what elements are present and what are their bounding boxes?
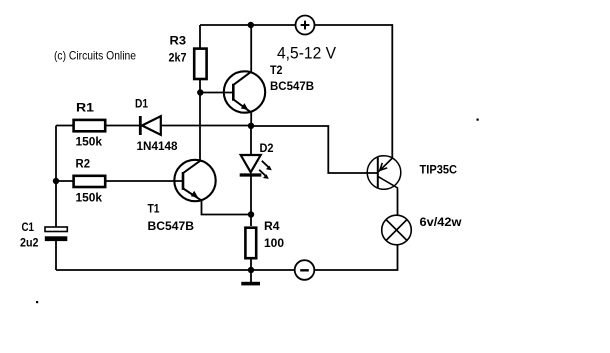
resistor R3 [194,49,206,79]
junction dot top rail / T2 collector [248,22,254,28]
diode D1 triangle [142,116,161,135]
wire D2 cathode to node D [250,177,252,215]
lamp X diagonal 2 [386,220,407,241]
transistor T1 emitter arrow [191,191,198,198]
wire Q3 emitter down to lamp [397,189,399,216]
LED D2 triangle [241,155,261,172]
wire D1 cathode to node B [161,125,252,127]
battery - terminal [295,260,315,280]
wire node D to R4 top [250,215,252,227]
capacitor C1 bottom plate [45,236,68,241]
transistor Q3 collector arrow (open) [380,163,387,170]
svg-text:150k: 150k [76,135,103,149]
svg-text:TIP35C: TIP35C [420,163,458,177]
svg-text:100: 100 [264,236,284,250]
wire left rail down [55,126,57,228]
svg-text:D2: D2 [260,141,274,155]
svg-text:2u2: 2u2 [20,236,39,250]
wire R1 right to D1 [106,125,140,127]
wire top rail from R3 top corner to + terminal [200,24,295,26]
transistor T2 emitter arrow [241,103,248,110]
transistor T2 circle [224,71,265,112]
wire R2 right to T1 base [106,180,183,182]
transistor T2 collector diagonal [234,71,252,84]
wire node B to right corner and down to TIP35C base [251,126,378,173]
resistor R1 [74,120,106,131]
wire + terminal to top-right corner and down to TIP35C collector [315,25,392,158]
svg-text:T1: T1 [148,202,160,216]
wire left rail to R2 left [56,180,73,182]
node B junction dot [248,123,254,129]
wire T2 emitter down to node B [250,113,252,126]
wire node B down to D2 anode [250,126,252,154]
svg-text:R2: R2 [76,157,91,171]
wire R1 left to left rail [56,125,73,127]
transistor T2 emitter diagonal [234,100,252,113]
node D junction dot [248,211,254,217]
svg-text:4,5-12 V: 4,5-12 V [277,44,337,63]
LED D2 emission arrow 2 [259,170,269,179]
node E junction dot [248,267,254,273]
transistor Q3 TIP35C circle [367,156,401,190]
svg-text:C1: C1 [22,220,35,234]
transistor T1 base bar [182,172,185,190]
wire R4 bottom to node E [250,260,252,271]
transistor T2 base bar [232,84,235,101]
lamp 6v/42w circle [382,215,412,245]
transistor Q3 collector diagonal [378,158,392,172]
transistor Q3 emitter diagonal [378,177,398,189]
svg-text:1N4148: 1N4148 [137,139,178,153]
wire - terminal right to lamp bottom corner [314,245,397,270]
LED D2 emission arrow 1 [262,161,272,170]
transistor T1 collector diagonal [183,160,201,173]
ground stub [250,270,252,282]
wire node A to T2 base [200,92,233,94]
svg-text:6v/42w: 6v/42w [420,215,463,229]
lamp X diagonal 1 [386,220,407,241]
diode D1 cathode bar [139,116,142,135]
wire bottom rail from C1 to - terminal [56,269,295,271]
resistor R2 [74,176,106,187]
wire from top rail down to R3 [199,25,201,48]
wire T1 emitter down and right to node D [202,201,252,215]
transistor Q3 base bar [377,158,379,189]
svg-text:BC547B: BC547B [270,79,314,93]
transistor T1 circle [174,160,215,201]
node C junction dot (left rail / R2) [53,178,59,184]
svg-text:150k: 150k [76,191,103,205]
resistor R4 [245,228,256,259]
node A junction dot [197,89,203,95]
wire node A down to T1 collector [199,93,201,160]
wire T2 collector up to top rail [250,25,252,72]
svg-text:2k7: 2k7 [169,51,187,65]
wire R3 bottom to node A [199,80,201,93]
ground bar [241,282,260,286]
stray dot bottom left [36,301,38,303]
transistor T1 emitter diagonal [183,189,202,201]
svg-text:(c) Circuits Online: (c) Circuits Online [54,49,136,63]
svg-text:R3: R3 [170,34,187,48]
capacitor C1 top plate [45,227,67,232]
wire C1 bottom to bottom rail [55,241,57,270]
svg-text:BC547B: BC547B [148,219,195,233]
svg-text:R1: R1 [76,101,94,115]
LED D2 cathode bar [240,173,262,176]
svg-text:D1: D1 [135,97,148,111]
svg-text:R4: R4 [264,219,280,233]
battery + terminal [296,16,315,35]
stray dot right middle [477,119,479,121]
svg-text:T2: T2 [270,63,283,77]
